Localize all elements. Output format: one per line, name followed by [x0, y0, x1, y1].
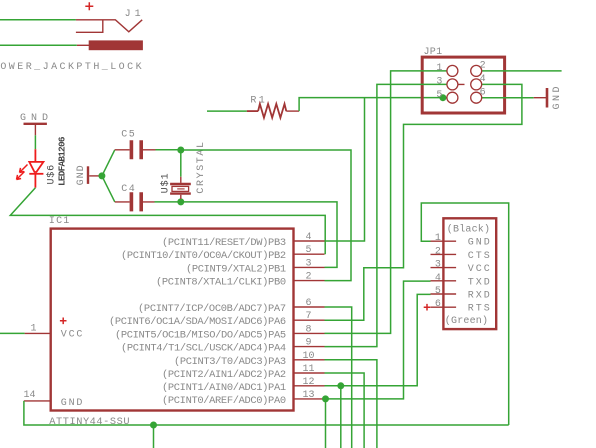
- wire XTAL1 net to PB0: [181, 150, 351, 281]
- svg-text:14: 14: [24, 390, 36, 401]
- wire PA2 pin11 down: [325, 373, 365, 448]
- wire GND to C4: [102, 176, 115, 202]
- svg-text:4: 4: [306, 232, 312, 243]
- svg-text:RTS: RTS: [468, 304, 492, 315]
- svg-text:13: 13: [303, 390, 315, 401]
- svg-text:1: 1: [31, 323, 37, 334]
- svg-text:2: 2: [480, 61, 486, 72]
- svg-text:J1: J1: [125, 9, 145, 20]
- wire LED cathode to PB2 net: [10, 188, 325, 255]
- svg-text:4: 4: [435, 273, 441, 284]
- capacitor C5: [115, 140, 156, 159]
- svg-text:6: 6: [306, 298, 312, 309]
- svg-text:(PCINT3/T0/ADC3)PA3: (PCINT3/T0/ADC3)PA3: [174, 356, 286, 368]
- svg-text:8: 8: [306, 324, 312, 335]
- IC1 right pin numbers: [303, 232, 315, 401]
- wire pin12 stub down: [340, 386, 342, 448]
- wire RESET vertical to PB3: [325, 98, 365, 241]
- svg-text:7: 7: [306, 311, 312, 322]
- FTDI pin numbers: [435, 233, 441, 310]
- svg-text:12: 12: [303, 377, 315, 388]
- pin 1 VCC lead: [25, 332, 51, 334]
- svg-text:1: 1: [436, 63, 442, 74]
- svg-text:(PCINT4/T1/SCL/USCK/ADC4)PA4: (PCINT4/T1/SCL/USCK/ADC4)PA4: [121, 343, 286, 355]
- svg-text:GND: GND: [552, 84, 563, 110]
- wire VCC to J1 pin: [0, 19, 76, 21]
- svg-text:(PCINT5/OC1B/MISO/DO/ADC5)PA5: (PCINT5/OC1B/MISO/DO/ADC5)PA5: [115, 329, 286, 341]
- svg-text:6: 6: [435, 299, 441, 310]
- wire GND bus from pin14: [24, 401, 509, 425]
- ground symbol right of JP1: [534, 88, 547, 108]
- svg-text:IC1: IC1: [49, 216, 71, 227]
- wire PA7 pin6 down: [325, 307, 352, 448]
- IC1 right pin leads: [294, 241, 325, 399]
- svg-text:5: 5: [436, 90, 442, 101]
- RTS plus mark: [424, 304, 431, 311]
- svg-text:(PCINT6/OC1A/SDA/MOSI/ADC6)PA6: (PCINT6/OC1A/SDA/MOSI/ADC6)PA6: [109, 316, 286, 328]
- wire JP1 pin2 stub: [482, 70, 562, 72]
- ground symbol above LED: [24, 124, 47, 136]
- FTDI pin leads: [431, 241, 457, 307]
- wire JP1 pin4 MOSI: [325, 84, 522, 320]
- svg-text:(PCINT0/AREF/ADC0)PA0: (PCINT0/AREF/ADC0)PA0: [162, 395, 286, 407]
- svg-text:4: 4: [480, 74, 486, 85]
- wire GND to C5: [102, 150, 115, 176]
- JP1 pin stubs: [447, 84, 489, 97]
- wire pin13 stub down: [325, 399, 327, 448]
- svg-text:(PCINT1/AIN0/ADC1)PA1: (PCINT1/AIN0/ADC1)PA1: [162, 382, 286, 394]
- svg-text:(PCINT9/XTAL2)PB1: (PCINT9/XTAL2)PB1: [186, 263, 286, 275]
- svg-text:(Green): (Green): [445, 315, 488, 327]
- JP1 pin numbers: [436, 61, 485, 101]
- wire JP1 pin5 segment to circle: [443, 97, 447, 99]
- junction dot GND stub: [150, 422, 157, 429]
- svg-text:5: 5: [435, 286, 441, 297]
- svg-text:3: 3: [306, 258, 312, 269]
- wire FTDI pin1 GND loop: [421, 203, 508, 425]
- svg-text:TXD: TXD: [468, 277, 492, 288]
- wire R1 to RESET net and JP1 pin5: [299, 98, 443, 112]
- connector JP1 outline: [422, 57, 504, 113]
- wire VCC pin1: [0, 332, 25, 334]
- ground symbol at capacitors: [88, 166, 102, 184]
- svg-text:U$1: U$1: [160, 172, 172, 193]
- wire PA3 pin10 down: [325, 360, 377, 448]
- pin 14 GND lead: [24, 400, 51, 402]
- junction dot crystal bottom: [177, 198, 184, 205]
- wire JP1 pin3 SCK: [325, 84, 447, 346]
- svg-text:1: 1: [435, 233, 441, 244]
- IC1 outline: [51, 229, 294, 411]
- svg-text:RXD: RXD: [468, 291, 492, 302]
- svg-text:GND: GND: [20, 113, 53, 124]
- svg-text:3: 3: [435, 260, 441, 271]
- svg-text:CTS: CTS: [468, 251, 492, 262]
- svg-text:3: 3: [436, 77, 442, 88]
- LED U$6: [17, 149, 44, 188]
- wire PA0 pin13 to TXD: [325, 281, 431, 399]
- wire crystal top lead: [180, 150, 182, 177]
- svg-text:CRYSTAL: CRYSTAL: [196, 140, 207, 193]
- IC1 pin labels: [109, 237, 286, 407]
- svg-text:2: 2: [306, 272, 312, 283]
- svg-text:2: 2: [435, 246, 441, 257]
- svg-text:C5: C5: [121, 129, 136, 140]
- resistor R1: [247, 104, 299, 118]
- junction dot pin13: [322, 395, 329, 402]
- wire GND stub down: [153, 425, 155, 448]
- power jack J1: [76, 20, 142, 50]
- svg-text:11: 11: [303, 364, 315, 375]
- svg-text:9: 9: [306, 338, 312, 349]
- svg-text:GND: GND: [468, 238, 492, 249]
- svg-text:LEDFAB1206: LEDFAB1206: [57, 136, 68, 186]
- junction dot pin12: [337, 382, 344, 389]
- svg-text:U$6: U$6: [45, 164, 57, 184]
- svg-text:R1: R1: [250, 95, 267, 106]
- svg-text:VCC: VCC: [61, 330, 84, 341]
- JP1 pin circles: [447, 65, 482, 103]
- FTDI pin names: [468, 238, 492, 315]
- svg-text:VCC: VCC: [468, 264, 492, 275]
- capacitor C4: [115, 192, 155, 211]
- wire R1 stub left: [207, 110, 247, 112]
- svg-text:5: 5: [306, 245, 312, 256]
- svg-text:ATTINY44-SSU: ATTINY44-SSU: [49, 416, 130, 428]
- junction dot crystal top: [177, 147, 184, 154]
- VCC plus mark: [60, 318, 67, 325]
- svg-text:10: 10: [303, 351, 315, 362]
- svg-text:(PCINT2/AIN1/ADC2)PA2: (PCINT2/AIN1/ADC2)PA2: [162, 369, 286, 381]
- svg-text:(PCINT11/RESET/DW)PB3: (PCINT11/RESET/DW)PB3: [162, 237, 286, 249]
- svg-text:6: 6: [480, 88, 486, 99]
- crystal U$1: [170, 177, 191, 199]
- wire GND to J1 sleeve: [0, 44, 77, 46]
- wire PA1 pin12 to RXD: [325, 294, 431, 385]
- wire C5 to XTAL1 node: [156, 149, 181, 151]
- junction dot capacitor GND: [98, 172, 105, 179]
- svg-text:(Black): (Black): [447, 223, 490, 235]
- svg-text:C4: C4: [121, 184, 136, 195]
- svg-text:GND: GND: [76, 164, 87, 185]
- svg-text:(PCINT8/XTAL1/CLKI)PB0: (PCINT8/XTAL1/CLKI)PB0: [156, 277, 286, 289]
- FTDI connector outline: [443, 218, 496, 329]
- svg-text:(PCINT7/ICP/OC0B/ADC7)PA7: (PCINT7/ICP/OC0B/ADC7)PA7: [138, 303, 286, 315]
- svg-text:(PCINT10/INT0/OC0A/CKOUT)PB2: (PCINT10/INT0/OC0A/CKOUT)PB2: [121, 250, 286, 262]
- J1 plus polarity mark: [85, 2, 93, 10]
- wire JP1 pin1 MISO: [325, 71, 447, 334]
- svg-text:POWER_JACKPTH_LOCK: POWER_JACKPTH_LOCK: [0, 62, 144, 73]
- svg-text:GND: GND: [61, 398, 84, 409]
- wire C4 to XTAL2 node: [155, 201, 181, 203]
- wire JP1 pin6 to GND: [482, 97, 534, 99]
- junction dot JP1 pin5: [439, 94, 446, 101]
- wire LED anode: [34, 135, 36, 149]
- wire XTAL2 net to PB1: [181, 202, 337, 268]
